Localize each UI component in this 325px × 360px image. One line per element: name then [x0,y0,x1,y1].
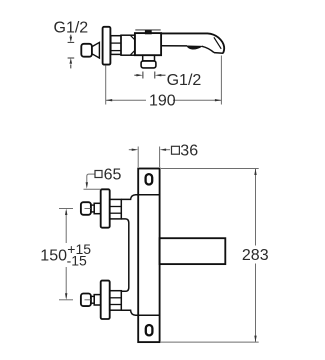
svg-text:150: 150 [40,247,67,264]
svg-text:G1/2: G1/2 [167,72,202,89]
svg-text:-15: -15 [67,252,87,268]
svg-text:36: 36 [180,142,198,159]
svg-text:283: 283 [242,247,269,264]
svg-text:G1/2: G1/2 [54,20,89,37]
svg-text:65: 65 [104,167,122,184]
svg-text:190: 190 [149,93,176,110]
